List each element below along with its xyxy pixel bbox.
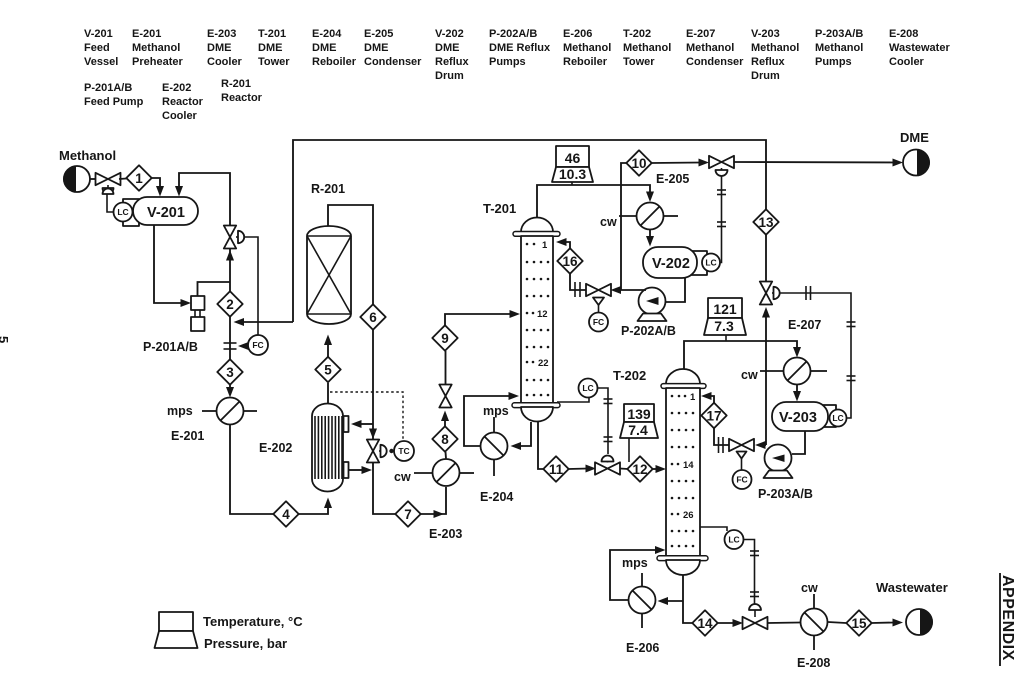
wire arrow into V-201 right nozzle [175,186,183,197]
wire branch into E-202 top nozzle [360,423,373,425]
node stream 6 [360,304,385,329]
svg-text:Temperature, °C: Temperature, °C [203,614,303,629]
wire spillback valve to pump discharge junction [229,248,231,282]
node stream 12 [627,456,652,481]
node stream 10 [626,150,651,175]
wire E-204 return to T-201 [464,396,511,446]
svg-text:P-201A/B: P-201A/B [143,340,198,354]
svg-text:cw: cw [741,368,758,382]
node stream 13 [753,209,778,234]
wire valve to DME product [734,161,895,164]
svg-text:46: 46 [565,150,581,166]
wire arrow down into bypass valve [369,429,377,440]
svg-text:cw: cw [600,215,617,229]
svg-text:26: 26 [683,510,694,521]
wire stream 9 into T-201 feed [445,314,512,326]
node stream 7 [395,501,420,526]
wire T-201 overhead to E-205 [537,185,650,217]
svg-text:Wastewater: Wastewater [876,580,948,595]
wire dashed TC sensing line to stream 5 [330,392,403,440]
svg-text:11: 11 [549,462,564,477]
svg-text:10.3: 10.3 [559,166,586,182]
svg-text:LC: LC [705,258,716,268]
wire P-203 discharge up through recycle valve [765,316,767,445]
instrument LC on V-203 [830,410,847,427]
wire spillback into V-201 top [179,173,230,226]
node stream 8 [432,426,457,451]
wire T-201 bottoms to diamond 11 [538,422,543,469]
wire feed to valve [90,178,97,180]
legend temperature pressure symbol [155,612,198,648]
wire recycle line to front end [293,140,766,322]
wire stream 16 to reflux valve [570,274,588,291]
node stream 17 [701,403,726,428]
heat exchanger E-208 [801,594,828,650]
valve spillback control valve [224,226,244,249]
equipment legend header row 1 [84,28,950,122]
svg-text:3: 3 [226,365,234,380]
tower T-201 [512,218,560,422]
instrument LC on T-201 bottom [557,397,589,402]
heat exchanger E-205 [619,203,678,230]
svg-text:E-204: E-204 [480,490,513,504]
svg-text:9: 9 [441,331,449,346]
actuator on LC signal below feed valve [103,189,114,195]
feed stream symbol Methanol [63,166,90,192]
svg-text:LC: LC [582,383,593,393]
svg-text:P-202A/B: P-202A/B [621,324,676,338]
pump P-201A/B [191,296,205,331]
instrument FC on feed line [248,335,268,355]
svg-text:mps: mps [622,556,648,570]
svg-text:FC: FC [593,317,604,327]
vessel V-202 [643,247,707,278]
svg-text:8: 8 [441,432,449,447]
wire E-206 return loop to T-202 [610,550,657,600]
svg-text:7.4: 7.4 [628,422,648,438]
orifice flanges on feed line FC [224,343,237,349]
valve DME product control valve [709,156,734,176]
heat exchanger E-207 [760,358,827,385]
wire stream 11 to bottoms valve [569,468,589,471]
svg-text:T-201: T-201 [483,201,516,216]
wire LC signal to feed valve [107,194,114,212]
valve reflux FC valve [586,284,611,313]
wire P-202 discharge up to product line [621,163,646,290]
node temperature pressure box 139 7.4 [620,404,658,462]
tray dots T-201 with tray numbers 1 12 22 [526,240,550,396]
svg-text:Methanol: Methanol [59,148,116,163]
svg-text:121: 121 [713,301,737,317]
exchanger E-202 shell and tube [312,404,349,492]
valve T-201 bottoms control valve [595,456,620,475]
valve T-202 reflux FC valve [729,439,754,470]
wire FC to orifice [241,345,248,347]
wire stream 5 into R-201 bottom [327,343,329,357]
wire V-203 to P-203 suction [792,431,805,454]
wire arrow up into spillback valve [226,250,234,261]
svg-text:E-201: E-201 [171,429,204,443]
wire V-202 to P-202 suction [666,278,685,302]
svg-text:E-206: E-206 [626,641,659,655]
svg-text:Pressure, bar: Pressure, bar [204,636,287,651]
instrument FC on reflux [589,313,608,332]
valve E-202 bypass TC valve [367,440,394,463]
wire valve to diamond 12 [620,468,628,471]
wire P-201 discharge [198,282,231,296]
wire LC signal to DME valve [720,177,722,263]
svg-text:5: 5 [0,336,11,343]
instrument TC on bypass [394,441,414,461]
node stream 4 [273,501,298,526]
heat exchanger E-201 [202,398,257,425]
signal hash marks on LC T-201 line [604,399,613,442]
svg-text:R-201: R-201 [311,182,345,196]
valve methanol recycle valve [760,282,780,305]
pump P-202A/B [638,288,667,322]
node stream 16 [557,248,582,273]
instrument LC on T-202 bottom [700,527,727,531]
svg-text:4: 4 [282,507,290,522]
wire LC signal to bottoms valve [598,388,609,454]
wire valve to diamond 1 [119,178,127,181]
wire FC signal to spillback valve actuator [245,237,259,335]
svg-text:APPENDIX: APPENDIX [999,575,1016,661]
wire recycle arrow into junction [242,321,293,323]
svg-text:cw: cw [801,581,818,595]
wire T-202 overhead to E-207 [684,341,797,369]
svg-text:14: 14 [683,460,694,471]
svg-text:cw: cw [394,470,411,484]
wire stream 7 to E-203 [421,487,447,514]
wire stream 17 to reflux valve [714,428,729,445]
wire bypass valve down to diamond 7 [373,463,395,515]
svg-text:7: 7 [404,507,412,522]
valve feed control valve [96,173,121,194]
svg-text:LC: LC [728,535,739,545]
tower T-202 [657,369,708,575]
valve wastewater control valve [743,604,768,629]
svg-text:2: 2 [226,297,234,312]
svg-text:LC: LC [117,207,128,217]
wire reflux arrow into T-201 top [563,242,570,249]
signal hash marks on LC V-203 line [806,286,856,381]
wire recycle valve up to diamond 13 [765,235,767,282]
wire LC signal to wastewater valve [744,540,755,607]
instrument FC on T-202 reflux [733,470,752,489]
signal hash marks on LC V-202 line [717,190,726,227]
svg-text:DME: DME [900,130,929,145]
node stream 9 [432,325,457,350]
wire E-203 to diamond 8 [445,452,448,459]
wire E-201 to diamond 4 [230,425,273,515]
instrument LC on V-201 [114,203,133,222]
svg-text:17: 17 [706,409,721,424]
signal hash marks on LC T-202 line [750,551,759,597]
svg-text:V-202: V-202 [652,256,690,272]
wire diamond 6 down to E-202 branch and bypass valve [372,330,374,440]
svg-text:TC: TC [398,446,409,456]
wire E-207 to V-203 [796,385,798,394]
APPENDIX underline [999,573,1001,666]
wire T-202 bottoms down with branch to E-206 [683,575,692,623]
wire stream 4 to E-202 bottom [299,505,329,514]
wire P-203 discharge into reflux valve [762,444,766,446]
wire reflux arrow into T-202 top [708,396,714,404]
wire E-202 top to diamond 5 [327,383,329,403]
svg-text:1: 1 [690,392,696,403]
wire valve to E-208 [768,622,801,625]
wire stream 8 up to gate valve [444,419,446,427]
svg-text:FC: FC [736,475,747,485]
svg-text:LC: LC [832,413,843,423]
svg-text:E-205: E-205 [656,172,689,186]
wire stream 12 into T-202 feed [653,468,659,470]
wire T-201 bottoms to E-204 [519,422,531,446]
wire discharge down to diamond 2 [229,282,231,292]
orifice flanges on T-202 reflux line [719,437,724,453]
svg-text:1: 1 [542,240,548,251]
valve on E-203 outlet line [439,385,451,408]
svg-text:FC: FC [252,340,263,350]
product stream symbol DME [903,150,930,176]
heat exchanger E-206 reboiler [629,573,656,628]
node stream 5 [315,357,340,382]
svg-text:12: 12 [537,309,548,320]
svg-text:10: 10 [631,156,646,171]
wire branch into E-206 [666,600,683,602]
wire stream 10 to product valve [652,162,702,165]
vessel V-203 [772,402,836,431]
node temperature pressure box 121 7.3 [704,298,746,341]
wire arrow into P-201 suction [181,299,192,307]
wire pump discharge into reflux valve [617,289,621,291]
wire R-201 top to diamond 6 [328,205,373,305]
wire E-205 to V-202 [649,230,651,239]
vessel V-201 [123,197,198,226]
svg-text:V-203: V-203 [779,410,817,426]
svg-text:E-208: E-208 [797,656,830,670]
tray dots T-202 with tray numbers 1 14 26 [671,392,696,547]
svg-text:E-207: E-207 [788,318,821,332]
node stream 11 [543,456,568,481]
svg-text:E-202: E-202 [259,441,292,455]
orifice flanges on reflux line [575,282,580,297]
svg-text:15: 15 [851,616,867,631]
svg-text:5: 5 [324,363,332,378]
pump P-203A/B [764,445,793,479]
svg-text:12: 12 [632,462,647,477]
svg-text:7.3: 7.3 [714,318,734,334]
svg-text:1: 1 [135,171,143,186]
heat exchanger E-203 [414,459,474,486]
wire V-201 bottom to P-201 [154,225,183,303]
svg-text:139: 139 [627,406,651,422]
wire arrow into V-201 left nozzle [156,186,164,197]
wire stream 15 to wastewater product [872,622,896,625]
wire LC signal V-203 to recycle valve [780,293,851,418]
svg-text:mps: mps [167,404,193,418]
svg-text:16: 16 [562,254,578,269]
heat exchanger E-204 reboiler [481,417,508,476]
wire valve to diamond 9 [445,351,447,385]
node stream 3 [217,359,242,384]
node stream 1 [126,165,151,190]
svg-text:13: 13 [758,215,774,230]
svg-text:V-201: V-201 [147,205,185,221]
node stream 15 [846,610,871,635]
svg-text:E-203: E-203 [429,527,462,541]
svg-text:6: 6 [369,310,377,325]
wire stream 2 to stream 3 [229,317,231,360]
reactor R-201 [307,226,351,324]
svg-text:T-202: T-202 [613,368,646,383]
product stream symbol Wastewater [906,609,933,635]
wire stream 14 to wastewater valve [718,622,736,624]
node stream 14 [692,610,717,635]
node temperature pressure box 46 10.3 [552,146,593,185]
wire stream 1 into V-201 [152,178,160,189]
wire E-208 to diamond 15 [828,622,846,623]
instrument LC on V-202 [702,254,720,272]
wire stream 3 to E-201 [229,385,231,391]
svg-text:P-203A/B: P-203A/B [758,487,813,501]
svg-text:22: 22 [538,358,549,369]
svg-text:14: 14 [697,616,713,631]
node stream 2 [217,291,242,316]
svg-text:mps: mps [483,404,509,418]
wire E-202 outlet rejoins below valve [349,469,365,471]
